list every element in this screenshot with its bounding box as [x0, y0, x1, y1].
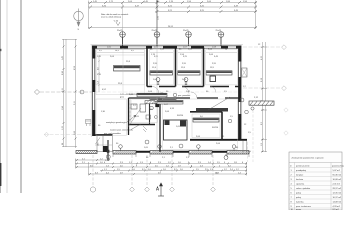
svg-text:pomieszczenie: pomieszczenie	[296, 166, 310, 168]
small dim texts inside plan	[99, 44, 261, 149]
top dimension ticks row1	[89, 1, 257, 29]
right grid diamond y47	[282, 45, 287, 50]
north arrow circle	[74, 9, 84, 27]
room label box bath	[150, 98, 176, 102]
right grid diamond y88	[282, 86, 287, 91]
grid diamond B left	[34, 90, 39, 95]
corridor bottom wall	[129, 97, 240, 99]
small circle below hatched box	[251, 107, 254, 110]
door swing arcs	[152, 87, 216, 99]
small circle on grid B	[80, 90, 84, 94]
svg-text:pom. techniczne: pom. techniczne	[296, 205, 312, 208]
porch vertical text	[98, 142, 100, 146]
bottom diamond 3	[170, 187, 175, 192]
window sill dim lines top rooms	[97, 52, 237, 54]
grid line C horizontal y134.5 faint	[44, 134, 91, 136]
symbol in closet room	[179, 144, 183, 148]
svg-text:90/210: 90/210	[177, 115, 184, 117]
bottom long wall	[113, 151, 249, 153]
svg-text:pokoj: pokoj	[296, 193, 301, 195]
bath bottom wall	[129, 124, 156, 126]
grid bubble labels	[117, 30, 222, 32]
svg-text:25x25: 25x25	[183, 30, 189, 32]
bottom diamond 2	[145, 187, 150, 192]
right dimension texts	[158, 15, 263, 146]
vent symbol 1	[156, 78, 160, 85]
svg-text:12,35 m2: 12,35 m2	[333, 193, 342, 195]
top exterior wall double lines	[92, 45, 241, 47]
symbol in kitchen	[145, 140, 149, 144]
top dimension chain line 1	[88, 1, 257, 30]
leader note 2	[110, 124, 141, 132]
vent symbol 2	[184, 78, 188, 85]
sheet inner border line 2	[20, 0, 22, 193]
symbol below garage wall	[224, 154, 228, 160]
svg-text:oraz na uskok elewacji: oraz na uskok elewacji	[101, 17, 122, 19]
right dimension chain	[261, 42, 267, 152]
sill inner line living	[97, 54, 145, 56]
hall/porch vertical feature x108	[106, 140, 110, 160]
top dimension texts	[93, 1, 248, 28]
grid bubble 2	[154, 32, 160, 46]
svg-text:nr: nr	[290, 165, 292, 168]
interior wall v3	[203, 48, 205, 87]
room label box r3	[178, 71, 201, 75]
corridor top wall	[147, 86, 240, 88]
left exterior wall outer face	[90, 45, 92, 137]
svg-text:wentylacja grawitacyjna: wentylacja grawitacyjna	[106, 121, 128, 124]
svg-text:poz. posadzki: poz. posadzki	[178, 95, 191, 97]
section label A	[156, 187, 159, 191]
grid bubble 4	[218, 32, 224, 46]
garage top wall	[190, 111, 222, 113]
right grid dashes y47	[243, 46, 282, 48]
svg-text:powierzchnia: powierzchnia	[332, 165, 345, 168]
interior wall v2	[175, 48, 177, 87]
table row lines	[289, 168, 342, 209]
garage left wall	[221, 112, 223, 140]
svg-text:24,51: 24,51	[168, 26, 174, 28]
porch black pier	[103, 146, 108, 152]
svg-text:pokoj: pokoj	[296, 197, 301, 199]
right grid dashes y88	[243, 87, 282, 89]
right dimension ticks	[262, 46, 264, 153]
room label box living	[114, 66, 141, 72]
left exterior wall	[93, 46, 95, 136]
svg-text:przedpokoj: przedpokoj	[296, 169, 307, 172]
hall left wall	[128, 98, 130, 135]
note leader arrow	[116, 22, 120, 26]
table column lines	[295, 163, 332, 211]
svg-text:25x25: 25x25	[216, 30, 222, 32]
svg-text:poz. pod posadzka: poz. pod posadzka	[104, 133, 122, 135]
svg-text:25x25: 25x25	[117, 30, 123, 32]
bath diagonal leader	[128, 108, 141, 127]
kitchen small box	[146, 115, 151, 119]
grid bubble 3	[186, 32, 192, 46]
left wing window box	[76, 151, 97, 154]
section mark A bottom	[158, 183, 164, 196]
svg-text:28,37 m2: 28,37 m2	[333, 188, 342, 190]
leader note right	[208, 97, 230, 110]
living room text line	[120, 93, 147, 99]
svg-text:10,37 m2: 10,37 m2	[333, 197, 342, 199]
kitchen scribble	[143, 126, 147, 132]
garage bottom wall	[190, 139, 247, 141]
extra tiny texts scatter	[97, 54, 259, 162]
svg-text:65,36 m2: 65,36 m2	[333, 175, 342, 177]
leader note 1	[106, 115, 136, 124]
bottom window box 2	[150, 151, 174, 154]
porch recess lines	[97, 136, 113, 152]
svg-text:5,07 m2: 5,07 m2	[333, 170, 341, 172]
porch door diagonal	[96, 138, 101, 145]
right exterior wall outer face	[241, 45, 243, 140]
note text block top	[101, 13, 128, 23]
room label box garage strip	[196, 108, 228, 112]
bath tile hatch	[130, 100, 132, 124]
right grid diamond y133 faint	[284, 131, 288, 135]
right outside hatched box	[249, 101, 274, 105]
section mark A top	[156, 1, 158, 3]
chimney box on right wall	[242, 68, 248, 77]
svg-text:25x25: 25x25	[152, 30, 158, 32]
svg-text:salon z jadalnia: salon z jadalnia	[296, 188, 311, 190]
bottom diamond 4	[211, 187, 216, 192]
bath label boxes row	[137, 93, 167, 97]
poz note circle	[173, 93, 177, 97]
corridor small hatch box	[145, 101, 155, 104]
svg-text:Zestawienie powierzchni z opis: Zestawienie powierzchni z opisami	[292, 157, 325, 160]
top wall piers	[92, 46, 241, 49]
svg-text:korytarz: korytarz	[296, 174, 303, 177]
left dimension ticks	[63, 46, 77, 140]
right lower dashed stems	[248, 110, 254, 162]
bottom wall jamb ticks	[113, 155, 249, 158]
room label box garage2	[193, 118, 219, 122]
svg-text:90/210: 90/210	[212, 127, 219, 129]
closet walls	[164, 120, 188, 140]
porch step line	[95, 144, 112, 146]
left dimension texts	[62, 55, 76, 145]
garage right step lines	[243, 141, 247, 155]
table cell texts	[290, 165, 345, 212]
svg-text:spizarnia: spizarnia	[296, 183, 305, 186]
table outer border	[289, 152, 342, 210]
right grid diamond y110 faint	[284, 108, 288, 112]
svg-text:garaz: garaz	[296, 208, 301, 210]
svg-text:10,08 m2: 10,08 m2	[333, 179, 342, 181]
top exterior wall outer face	[91, 44, 244, 46]
svg-text:14,08 m2: 14,08 m2	[333, 202, 342, 204]
interior wall v1	[146, 48, 148, 87]
closet corner blob 1	[165, 121, 170, 126]
bottom window box 4	[227, 151, 251, 154]
svg-text:8,9 m2: 8,9 m2	[333, 209, 340, 210]
grid line x157 inside plan	[156, 48, 158, 152]
grid bubble 1	[120, 32, 126, 46]
downpipe circles on bottom wall	[119, 145, 236, 151]
bottom diamond 1	[130, 187, 135, 192]
bottom dimension texts	[82, 159, 244, 175]
bottom-left wing wall	[93, 134, 113, 136]
room label box r2	[150, 71, 173, 75]
bottom dimension chains	[75, 159, 247, 176]
grid line B horizontal y92	[40, 91, 92, 93]
room inner face lines	[96, 50, 237, 150]
grid line vertical x122.5	[122, 2, 124, 46]
grid line x123 inside plan	[122, 48, 124, 94]
wall-side fixture symbol	[86, 120, 92, 127]
svg-text:2,41 m2: 2,41 m2	[333, 184, 341, 186]
svg-text:nawiew pow. zewnetrznej: nawiew pow. zewnetrznej	[110, 129, 133, 132]
small dark box room4	[210, 76, 216, 82]
corridor label box 2	[157, 100, 183, 104]
left dimension chain lines	[62, 39, 77, 148]
upper room number texts	[107, 47, 217, 49]
grid line vertical x157	[156, 0, 158, 46]
sheet left edge tick	[0, 49, 2, 51]
bottom window box 3	[189, 151, 213, 154]
closet corner blob 2	[180, 121, 186, 127]
interior dim line x99	[98, 55, 100, 92]
bottom dimension ticks	[76, 159, 247, 175]
room label box r4	[206, 71, 232, 75]
bottom window box 1	[113, 151, 137, 154]
sheet left edge sliver	[0, 0, 2, 193]
grid stems to bottom diamonds	[93, 155, 213, 186]
sheet left edge dark segment	[0, 163, 2, 186]
svg-text:gres: gres	[120, 97, 124, 99]
bath inner wall	[149, 103, 151, 125]
svg-text:kuchnia: kuchnia	[296, 179, 304, 181]
sheet inner border line 1	[6, 0, 8, 193]
right exterior wall	[239, 46, 241, 141]
small symbols right side	[240, 98, 244, 102]
svg-text:4,33 m2: 4,33 m2	[333, 206, 341, 208]
bath fixtures	[131, 104, 153, 112]
table header underline	[289, 162, 342, 164]
black box near bath	[155, 103, 159, 107]
bath right wall	[159, 98, 161, 152]
svg-text:lazienka: lazienka	[296, 202, 304, 204]
bottom circle bubble	[90, 187, 95, 192]
